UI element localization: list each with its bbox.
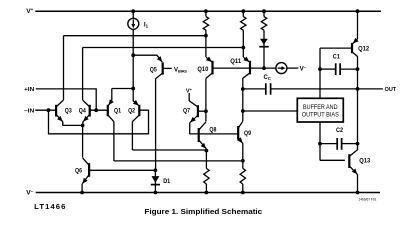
label VBIAS <box>174 67 187 73</box>
wire Q5 base stub <box>163 67 172 69</box>
label OUTPUT BIAS <box>302 112 339 118</box>
label V- (right) <box>300 65 307 73</box>
label I1 <box>144 21 149 28</box>
current source I1 <box>128 18 139 29</box>
svg-text:1466/67 F01: 1466/67 F01 <box>359 198 377 202</box>
wire Q13 base <box>320 159 345 161</box>
footnote 1466/67 F01 <box>359 198 377 202</box>
node: Q6 base / D1 anode <box>154 168 158 172</box>
wire Q10 collector drop <box>205 78 207 121</box>
node: Q13 emitter on V- rail <box>356 191 360 195</box>
transistor Q6 (NPN) <box>82 158 89 184</box>
svg-text:VBIAS: VBIAS <box>174 67 187 73</box>
svg-text:Q1: Q1 <box>114 108 121 115</box>
label Q3 <box>65 108 72 115</box>
caption Figure 1. Simplified Schematic <box>144 207 262 216</box>
svg-text:+IN: +IN <box>24 87 34 93</box>
wire Q13 emitter to V- rail <box>357 174 359 192</box>
wire Q8 emitter lead <box>205 149 207 169</box>
wire Q7 base stub <box>198 110 206 112</box>
svg-text:C1: C1 <box>333 54 340 61</box>
transistor Q2 (PNP) <box>132 100 139 122</box>
node: R2 bottom / Q4 collector <box>241 46 245 50</box>
node: diode cathode / mirror base rail <box>262 66 266 70</box>
wire Q6 emitter to V- rail <box>81 184 83 193</box>
V+ rail label <box>26 7 33 15</box>
wire C2 right <box>342 143 358 145</box>
block: buffer and output bias <box>297 98 343 122</box>
transistor Q11 (PNP) <box>243 57 250 79</box>
label Q13 <box>359 157 370 164</box>
wire -IN to Q3 base <box>35 109 56 111</box>
node: input-pair tail <box>81 124 85 128</box>
transistor Q10 (PNP) <box>206 57 213 79</box>
node: Q6 emitter on V- rail <box>80 191 84 195</box>
transistor Q5 (PNP) <box>156 55 163 78</box>
wire I1 to input-pair emitters <box>132 29 134 101</box>
wire Q1 emitter feed from I1 bus <box>111 89 113 101</box>
svg-text:Q6: Q6 <box>75 168 82 175</box>
svg-text:Q4: Q4 <box>79 108 86 115</box>
label -IN <box>24 109 34 115</box>
wire Q12 collector drop (output rail) <box>357 56 359 150</box>
node: Q9 collector / Cc branch <box>241 87 245 91</box>
label BUFFER AND <box>303 105 338 111</box>
wire OUT bus (Cc right to OUT) <box>271 88 383 90</box>
label OUT <box>385 87 397 93</box>
label D1 <box>163 178 170 185</box>
label Q10 <box>197 66 208 73</box>
resistor R1 <box>203 11 208 35</box>
svg-text:CC: CC <box>264 75 271 81</box>
wire I1 bus horizontal <box>112 88 133 90</box>
node: C1 left <box>318 67 322 71</box>
label +IN <box>24 87 34 93</box>
svg-text:C2: C2 <box>336 127 343 134</box>
node: R3 top on V+ rail <box>262 9 266 13</box>
label Q7 <box>183 108 190 115</box>
wire R2-bottom to Q4 collector (horizontal) <box>83 47 244 49</box>
wire C1 right <box>340 68 357 70</box>
V- rail <box>36 192 380 194</box>
node: Q8 emitter / Q2 collector <box>205 149 209 153</box>
label Q1 <box>114 108 121 115</box>
svg-text:Q12: Q12 <box>358 46 369 53</box>
label Q8 <box>209 127 216 134</box>
node: R2 top on V+ rail <box>241 9 245 13</box>
wire Q9 emitter lead <box>242 143 244 168</box>
node: -IN branch <box>47 108 51 112</box>
svg-text:Q9: Q9 <box>244 130 251 137</box>
label Q4 <box>79 108 86 115</box>
wire -IN to Q2 base (down, across, up) <box>49 110 149 134</box>
wire Q5 emitter from I1 line <box>133 54 157 56</box>
label C2 <box>336 127 343 134</box>
node: R5 on V- rail <box>241 191 245 195</box>
label Q12 <box>358 46 369 53</box>
transistor Q3 (NPN) <box>56 100 63 122</box>
node: Q9 emitter / Q1 collector <box>241 159 245 163</box>
label C1 <box>333 54 340 61</box>
capacitor C1 <box>336 63 340 75</box>
node: D1 on V- rail <box>154 191 158 195</box>
capacitor Cc <box>266 83 271 94</box>
resistor R5 (Q9 emitter) <box>240 168 245 192</box>
wire box bottom to C2/Q13 base <box>319 122 321 160</box>
node: C2 right on output rail <box>356 142 360 146</box>
svg-text:LT1466: LT1466 <box>34 202 66 211</box>
wire Q4 emitter stub <box>82 122 84 126</box>
label Cc <box>264 75 271 81</box>
node: R1 bottom / Q3 collector <box>204 34 208 38</box>
wire C1 left <box>320 68 336 70</box>
label Q5 <box>150 67 157 74</box>
current source I2 (to V-) <box>276 63 287 74</box>
wire Q7 collector to V+ stub <box>188 93 190 101</box>
wire Q3-Q4 emitter join <box>63 122 83 126</box>
wire Q3 collector riser <box>63 36 65 100</box>
wire Q10 emitter lead <box>205 36 207 57</box>
svg-text:V+: V+ <box>26 7 33 15</box>
wire Q11 emitter lead <box>242 48 244 58</box>
node: Q10 collector / Q7 base / Q8 collector <box>204 109 208 113</box>
svg-text:Q2: Q2 <box>128 108 135 115</box>
node: I1 / Q5 emitter branch <box>131 53 135 57</box>
transistor Q4 (NPN) <box>83 100 90 122</box>
wire Q12 emitter lead <box>357 11 359 39</box>
transistor Q8 (NPN) <box>199 122 207 149</box>
transistor Q7 (NPN) <box>189 101 198 123</box>
node: I1 tap on V+ rail <box>131 9 135 13</box>
wire R1-bottom to Q3 collector (horizontal) <box>64 35 206 37</box>
wire I2 to V- label <box>287 67 298 69</box>
svg-text:D1: D1 <box>163 178 170 185</box>
node: Q9 collector / buffer input <box>241 109 245 113</box>
wire Q12 base / C1 / box-top riser <box>319 48 321 98</box>
wire Q4 collector riser <box>82 48 84 101</box>
wire +IN <box>36 89 96 110</box>
resistor R3 <box>261 11 266 39</box>
node: OUT junction <box>356 87 360 91</box>
svg-text:Q13: Q13 <box>359 157 370 164</box>
label Q9 <box>244 130 251 137</box>
wire Q2 collector drop and run to Q8 emitter <box>132 122 206 151</box>
resistor R4 (Q8 emitter) <box>204 168 209 192</box>
wire tail to Q6 collector <box>82 125 84 157</box>
svg-text:Q3: Q3 <box>65 108 72 115</box>
resistor R2 <box>241 11 246 47</box>
label V+ (Q7 collector) <box>186 87 193 95</box>
svg-text:Q10: Q10 <box>197 66 208 73</box>
wire Q9 collector to buffer box <box>243 110 297 112</box>
svg-text:OUTPUT BIAS: OUTPUT BIAS <box>302 112 339 118</box>
node: R4 on V- rail <box>205 191 209 195</box>
label LT1466 <box>34 202 66 211</box>
svg-text:Q7: Q7 <box>183 108 190 115</box>
node: R1 top on V+ rail <box>204 9 208 13</box>
transistor Q12 (PNP) <box>352 38 359 57</box>
wire Q11 collector drop <box>242 78 244 121</box>
capacitor C2 <box>337 138 341 150</box>
node: +IN / Q4 base / Q1 base <box>94 108 98 112</box>
diode (R3 chain) <box>259 39 268 68</box>
label Q2 <box>128 108 135 115</box>
wire Q1 collector drop and run to Q9 emitter <box>114 122 243 161</box>
diode D1 <box>151 170 160 192</box>
node: Q12 emitter on V+ rail <box>356 9 360 13</box>
svg-text:BUFFER AND: BUFFER AND <box>303 105 338 111</box>
V+ rail <box>35 10 381 12</box>
transistor Q9 (NPN) <box>237 121 243 143</box>
wire C2 left <box>320 143 337 145</box>
transistor Q13 (NPN) <box>349 150 357 175</box>
wire Q7 emitter to Q8/Q9 bases <box>190 122 239 134</box>
svg-text:Q5: Q5 <box>150 67 157 74</box>
svg-text:I1: I1 <box>144 21 149 28</box>
wire Q6 base to D1 <box>89 169 155 171</box>
svg-text:V–: V– <box>26 189 33 197</box>
label Q11 <box>230 58 241 65</box>
label Q6 <box>75 168 82 175</box>
node: C1 right on output rail <box>356 67 360 71</box>
node: C2 left <box>318 142 322 146</box>
svg-text:–IN: –IN <box>24 109 34 115</box>
wire Q4 base - Q1 base <box>90 109 108 111</box>
transistor Q1 (PNP) <box>108 99 114 122</box>
svg-text:Figure 1. Simplified Schematic: Figure 1. Simplified Schematic <box>144 207 262 216</box>
wire Q12 base run <box>320 47 352 49</box>
wire Q5 collector to D1 <box>155 78 157 170</box>
wire I1 top lead <box>132 11 134 18</box>
wire Q10-Q11 base rail <box>213 67 276 69</box>
V- rail label <box>26 189 33 197</box>
svg-text:V–: V– <box>300 65 307 73</box>
svg-text:Q8: Q8 <box>209 127 216 134</box>
svg-text:Q11: Q11 <box>230 58 241 65</box>
svg-text:OUT: OUT <box>385 87 397 93</box>
node: I1 bus junction <box>131 87 135 91</box>
wire Cc left <box>243 88 266 90</box>
